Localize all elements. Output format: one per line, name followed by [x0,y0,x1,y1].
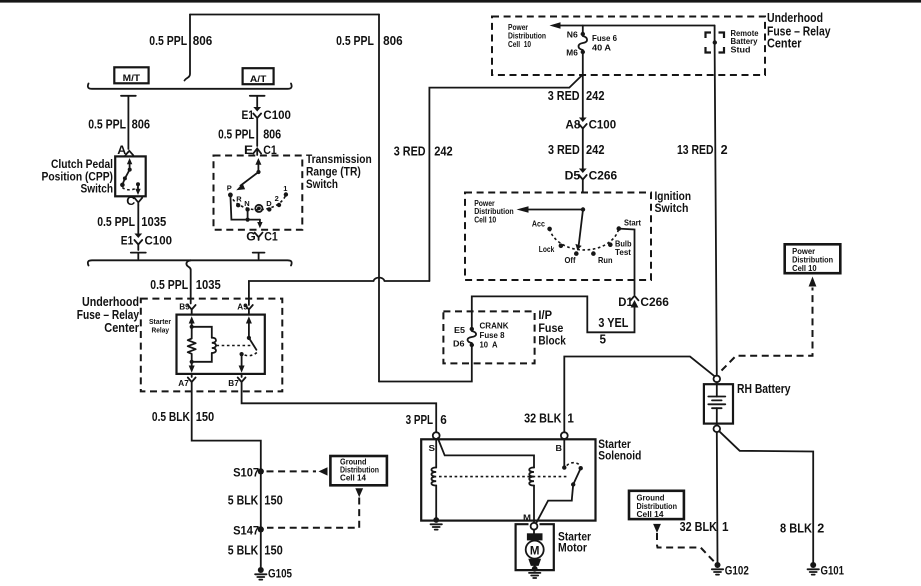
starter solenoid label [598,439,641,462]
svg-text:Off: Off [565,255,576,265]
wire: CPP output 0.5 PPL 1035 [137,205,139,250]
TR contact D (circled) [255,205,262,212]
terminal A9 [237,302,253,315]
wire: 0.5 PPL 806 right vertical (main PPL run) [378,15,380,382]
arrow from ground distribution (right) [653,524,661,533]
svg-text:C100: C100 [263,108,291,122]
svg-text:C100: C100 [145,234,173,248]
wire label 5 BLK 150 (lower) [228,543,283,558]
wire label 0.5 PPL 1035 [97,214,166,229]
svg-text:R: R [236,195,242,204]
I/P fuse block label [538,310,566,348]
svg-text:Range (TR): Range (TR) [306,166,361,178]
svg-text:242: 242 [434,144,453,159]
TR contact 1 [283,184,288,197]
svg-text:Fuse: Fuse [538,323,563,335]
svg-text:Stud: Stud [731,45,751,54]
svg-text:Start: Start [624,217,641,227]
TR contact 2 [275,194,282,207]
svg-text:Cell 14: Cell 14 [340,474,367,483]
wire label 3 RED 242 (A9 branch) [394,144,453,159]
relay coil output arrow to A7 [191,362,193,366]
wire: feed bus with arrow to power distribution [550,22,715,28]
svg-text:3 RED: 3 RED [548,88,580,103]
TR contact arc (dashed) [230,195,286,210]
relay switch input arrow from A9 [246,316,252,340]
TR contact N [244,199,250,212]
svg-text:C: C [126,194,135,208]
underhood fuse-relay center label (left) [77,295,139,335]
svg-text:Switch: Switch [306,179,338,191]
svg-text:Fuse 8: Fuse 8 [480,331,506,340]
wire: A/T branch into TR switch [256,118,258,146]
node: A/T branch tap [250,96,265,107]
wire label 3 RED 242 (upper) [548,88,605,103]
node: A/T bottom tap [253,253,265,259]
relay dashed linkage [217,345,253,347]
svg-text:Relay: Relay [152,325,170,334]
wire: 3 YEL 5 from D1 to CRANK fuse [472,296,635,332]
motor brush block [527,530,543,541]
svg-text:D5: D5 [565,168,581,182]
svg-text:Position (CPP): Position (CPP) [42,171,114,183]
solenoid contact from B [562,439,566,470]
wire: ignition feed arrow to power distribution [517,206,586,212]
svg-text:Center: Center [104,321,139,335]
svg-text:2: 2 [817,521,824,536]
starter relay label [149,317,171,335]
svg-text:Switch: Switch [81,183,114,195]
svg-text:S147: S147 [233,523,259,537]
svg-text:Test: Test [615,247,631,257]
wire label 0.5 PPL 806 (right) [336,33,403,48]
relay switch blade [240,338,257,356]
svg-text:Acc: Acc [532,219,545,229]
svg-text:10 A: 10 A [480,340,498,349]
svg-text:Starter: Starter [598,439,631,451]
svg-text:RH Battery: RH Battery [737,382,791,396]
relay coil [190,327,216,364]
ignition position Start [617,217,642,231]
wire: top horizontal bus [190,14,379,16]
splice S147 [233,523,264,537]
solenoid hold-in winding [431,439,436,517]
connector A8 C100 [565,117,616,131]
svg-text:Center: Center [767,37,802,51]
svg-text:3 YEL: 3 YEL [598,315,628,330]
connector D1 C266 [618,295,669,309]
svg-text:1035: 1035 [196,277,221,292]
terminal E5 [454,325,474,335]
ignition position Bulb Test [608,239,632,258]
svg-text:B: B [556,443,563,453]
svg-text:32 BLK: 32 BLK [524,410,562,425]
svg-text:D6: D6 [453,338,465,348]
svg-text:D1: D1 [618,295,633,309]
terminal M (motor) [531,523,538,530]
svg-text:Ignition: Ignition [655,191,692,203]
svg-text:Solenoid: Solenoid [598,450,641,462]
ignition switch box [465,193,651,281]
wire: A7 ground run 0.5 BLK 150 [192,382,261,469]
relay resistor [188,327,196,362]
svg-text:Block: Block [538,336,566,348]
svg-text:0.5 PPL: 0.5 PPL [97,214,135,229]
dashed link to S147 [267,498,359,528]
svg-text:Cell 10: Cell 10 [508,40,532,49]
ground G105 [255,567,292,580]
svg-text:3 RED: 3 RED [394,144,426,159]
terminal B9 [179,302,195,315]
ignition switch wiper [575,210,583,251]
splice S107 [233,465,264,479]
clutch pedal position (CPP) switch box [115,156,146,196]
svg-text:S107: S107 [233,465,259,479]
svg-text:8 BLK: 8 BLK [780,521,813,536]
ignition position Acc [532,219,552,232]
solenoid pull-in winding branch [438,438,534,522]
svg-text:E1: E1 [242,108,255,122]
clutch pedal position switch label [42,159,114,195]
svg-text:806: 806 [383,33,403,48]
svg-text:3 PPL: 3 PPL [406,412,434,427]
I/P fuse block box [443,311,534,363]
TR switch input arrow and blade [236,158,261,190]
svg-text:G102: G102 [725,565,749,577]
wire label 0.5 BLK 150 [152,409,214,424]
relay switch output arrow to B7 [239,354,245,373]
TR contact D [266,199,272,212]
power distribution cell 10 note (in underhood box) [508,23,546,49]
wire: S107 to S147 (5 BLK 150) [260,474,262,567]
ground (solenoid internal) [431,517,442,530]
transmission range (TR) switch box [214,156,303,230]
arrow from ground distribution (left) [355,488,363,497]
svg-text:1035: 1035 [141,214,166,229]
solenoid dashed linkage [439,476,569,478]
starter relay box [177,315,265,374]
wire label 13 RED 2 [677,142,728,157]
splice bus bracket (top) [88,84,292,89]
svg-text:E1: E1 [121,234,134,248]
wire: fuse output down and branch left [429,52,582,281]
connector D5 C266 [565,168,618,182]
svg-text:M: M [530,545,540,557]
svg-text:Clutch Pedal: Clutch Pedal [51,159,113,171]
fuse 6 40 A [579,33,618,53]
wire: main PPL to CRANK fuse D6 [379,345,472,382]
solenoid moving contact [567,463,583,487]
svg-text:M: M [523,512,531,522]
RH battery terminal (bottom) [714,426,721,433]
svg-text:C1: C1 [264,229,278,243]
starter motor label [558,531,591,554]
A/T tag box [243,68,274,85]
connector E1 C100 (M/T branch) [121,234,173,248]
wire label 3 YEL 5 [598,315,628,347]
wire label 5 BLK 150 (upper) [228,493,283,508]
svg-text:5 BLK: 5 BLK [228,493,259,508]
splice bus bracket (bottom) [88,260,292,265]
ignition switch label [655,191,692,215]
svg-text:Underhood: Underhood [82,295,139,309]
TR contact P [227,184,233,198]
ground G102 [712,562,749,577]
ground G101 [808,562,845,577]
svg-text:Cell 10: Cell 10 [474,215,497,224]
svg-text:S: S [429,443,436,453]
svg-text:0.5 PPL: 0.5 PPL [150,277,188,292]
wire: 0.5 PPL 806 feed, left drop from top bus [185,15,191,81]
wire: 0.5 PPL 1035 drop to relay B9 [186,260,190,303]
CRANK fuse 8 10 A [468,321,509,349]
wire: 13 RED 2 from stud to battery [715,26,717,376]
svg-text:1: 1 [722,519,729,534]
svg-text:B7: B7 [228,378,239,388]
svg-text:40 A: 40 A [592,43,611,53]
dashed link to G102 wire [657,533,714,562]
power distribution cell 10 note (in ignition box) [474,199,514,224]
wire: B7 output to solenoid S (3 PPL 6) [242,382,437,432]
svg-text:A7: A7 [178,378,189,388]
wire label 32 BLK 1 (upper) [524,410,574,425]
RH battery terminal (top) [714,376,721,383]
ignition position Run [591,251,612,265]
motor lower brush block [528,559,541,566]
node: M/T branch tap [121,96,136,149]
terminal A (CPP switch input) [117,143,133,157]
svg-text:2: 2 [721,142,728,157]
svg-text:Cell 14: Cell 14 [637,510,665,519]
svg-text:150: 150 [196,409,215,424]
svg-text:150: 150 [264,543,283,558]
wire label 32 BLK 1 (lower) [680,519,729,534]
arrow into power distribution box [809,277,817,287]
wire label 0.5 PPL 806 (M/T branch) [88,116,150,131]
power distribution cell 10 box [785,244,841,273]
wire label 0.5 PPL 1035 (to B9) [150,277,220,292]
wire: 32 BLK 1 from solenoid B to battery [564,357,714,433]
terminal C (CPP switch output) [126,194,142,208]
wire: contact to M terminal [536,485,573,524]
svg-text:6: 6 [440,412,447,427]
svg-text:242: 242 [586,142,605,157]
svg-text:Switch: Switch [655,203,689,215]
svg-text:Cell 10: Cell 10 [792,264,817,273]
ignition rotary arc (dashed) [550,229,619,250]
svg-text:C266: C266 [589,168,618,182]
svg-text:C100: C100 [589,117,617,131]
svg-text:Fuse 6: Fuse 6 [592,33,617,43]
underhood fuse-relay center label (top right) [767,11,831,51]
svg-text:242: 242 [586,88,605,103]
svg-text:5 BLK: 5 BLK [228,543,259,558]
wire label 0.5 PPL 806 (left) [149,33,212,48]
underhood fuse-relay center box (top) [492,17,765,76]
ground distribution cell 14 box (right) [629,491,684,519]
remote battery stud [706,33,725,53]
svg-text:G101: G101 [821,565,845,577]
svg-text:Starter: Starter [558,531,591,543]
wire label 8 BLK 2 [780,521,824,536]
terminal B7 [228,374,245,388]
svg-text:D: D [266,199,272,208]
node: M/T bottom tap [131,253,146,259]
RH battery cell plates [708,382,725,425]
underhood fuse-relay center box (relay) [141,299,282,392]
svg-text:P: P [227,184,232,193]
svg-text:806: 806 [193,33,213,48]
top border frame [0,0,921,3]
terminal A7 [178,374,195,388]
starter solenoid box [421,439,595,520]
dashed link S107 to ground distribution [267,467,328,475]
wire label 3 PPL 6 [406,412,447,427]
svg-text:Motor: Motor [558,543,587,555]
svg-text:1: 1 [567,410,574,425]
svg-text:2: 2 [275,194,279,203]
svg-text:Lock: Lock [539,244,555,254]
svg-text:Fuse – Relay: Fuse – Relay [77,308,139,322]
node M6 [566,48,585,58]
svg-text:806: 806 [132,116,151,131]
svg-text:A/T: A/T [250,74,267,85]
CPP switch contacts and blade [120,158,141,195]
wire label 0.5 PPL 806 (A/T branch) [218,126,281,141]
TR contact R [236,195,242,208]
svg-text:0.5 PPL: 0.5 PPL [336,33,374,48]
svg-text:806: 806 [263,126,281,141]
dashed link battery to power distribution [722,288,813,371]
remote battery stud label [731,29,760,55]
svg-text:CRANK: CRANK [480,321,509,330]
svg-text:0.5 PPL: 0.5 PPL [88,116,126,131]
ground (starter motor) [529,566,540,578]
svg-text:1: 1 [283,184,287,193]
svg-text:N6: N6 [567,30,578,40]
node N6 [567,26,585,40]
svg-text:N: N [244,199,249,208]
ignition position Lock [539,244,563,255]
relay coil input arrow [189,316,195,329]
svg-text:3 RED: 3 RED [548,142,580,157]
svg-text:G105: G105 [268,568,293,580]
wire: Start to D1 C266 [619,229,635,295]
TR switch label [306,154,372,191]
terminal G at C1 (TR switch output) [246,229,278,243]
ignition position Off [565,251,579,265]
svg-text:5: 5 [600,332,607,347]
svg-text:C266: C266 [640,295,669,309]
svg-text:M6: M6 [566,48,578,58]
svg-text:G: G [246,229,256,243]
svg-text:32 BLK: 32 BLK [680,519,718,534]
terminal S (solenoid) [433,432,440,439]
svg-text:M/T: M/T [123,73,141,84]
terminal B (solenoid) [561,432,568,439]
terminal D6 [453,338,474,348]
svg-text:0.5 BLK: 0.5 BLK [152,409,190,424]
motor armature M [526,541,544,559]
terminal E at C1 (TR switch input) [244,143,277,157]
svg-text:I/P: I/P [538,310,552,322]
svg-text:150: 150 [264,493,283,508]
wire: battery negative to G102 [716,432,719,562]
ground distribution cell 14 box (left) [330,456,387,485]
RH battery box [704,384,733,423]
svg-text:Run: Run [598,255,613,265]
starter motor box [516,524,554,570]
svg-text:Underhood: Underhood [767,11,823,25]
wire: battery negative to G101 (8 BLK 2) [719,431,813,562]
svg-text:13 RED: 13 RED [677,142,714,157]
svg-text:0.5 PPL: 0.5 PPL [218,126,255,141]
M/T tag box [114,67,148,84]
wire label 3 RED 242 (lower) [548,142,605,157]
wire: A9 feed from 3 RED (hops main PPL) [249,278,430,305]
svg-text:Transmission: Transmission [306,154,372,166]
connector E1 C100 (A/T branch) [242,107,292,122]
wire: P contact to G output [230,195,262,228]
svg-text:E5: E5 [454,325,465,335]
svg-text:0.5 PPL: 0.5 PPL [149,33,187,48]
